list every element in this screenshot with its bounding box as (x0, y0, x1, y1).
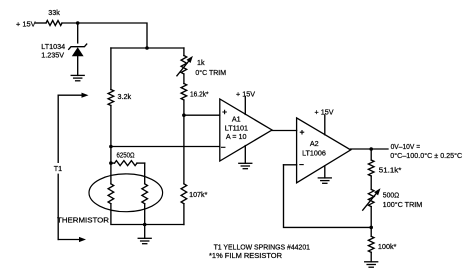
T1 sensor bracket bottom arrow (58, 239, 79, 241)
svg-text:A = 10: A = 10 (226, 132, 247, 141)
wire to ground (144, 225, 146, 239)
trimpot 1k 0C TRIM (181, 56, 187, 75)
A2 supply stem and label (324, 115, 326, 135)
wire A1 out to A2 (272, 130, 297, 132)
svg-text:+ 15V: + 15V (315, 108, 334, 117)
svg-text:0°C–100.0°C ± 0.25°C: 0°C–100.0°C ± 0.25°C (390, 151, 462, 160)
svg-text:100k*: 100k* (378, 242, 397, 251)
wire right thermistor leg (144, 163, 146, 184)
svg-text:16.2k*: 16.2k* (190, 89, 209, 98)
op-amp A1 LT1101 (220, 99, 272, 161)
node bridge top (145, 46, 149, 50)
node A1 plus tap (182, 113, 186, 117)
svg-text:0°C TRIM: 0°C TRIM (195, 68, 226, 77)
wire left arm down (110, 48, 112, 90)
svg-text:3.2k: 3.2k (118, 92, 132, 101)
wire to trim (370, 176, 372, 189)
wires thermistor bottoms (111, 204, 184, 225)
wire +15V feed (36, 22, 47, 24)
svg-text:100°C TRIM: 100°C TRIM (383, 200, 423, 209)
wire bridge top bar (111, 47, 184, 49)
wire 100k to ground (370, 252, 372, 261)
wire to A1 inverting input (111, 146, 220, 148)
thermistor element right (142, 184, 148, 204)
svg-text:33k: 33k (48, 8, 60, 17)
svg-text:A2: A2 (310, 139, 319, 148)
ground below zener (71, 74, 84, 76)
svg-text:0V–10V =: 0V–10V = (391, 142, 421, 151)
wire A2 inverting stub (284, 164, 297, 166)
wire trim to 16.2k (183, 74, 185, 84)
ground output divider (365, 261, 378, 263)
wire down to zener (77, 23, 79, 43)
svg-text:1.235V: 1.235V (41, 50, 64, 59)
wire down through minus wire to 107k (183, 100, 185, 184)
svg-text:6250Ω: 6250Ω (117, 150, 136, 159)
feedback wire (284, 165, 372, 228)
resistor 107k* (181, 184, 187, 204)
node feedback (369, 226, 373, 230)
svg-text:*1% FILM RESISTOR: *1% FILM RESISTOR (209, 251, 282, 260)
node 6250 tap (109, 161, 113, 165)
resistor 51.1k* (368, 160, 374, 176)
svg-text:51.1k*: 51.1k* (379, 165, 402, 174)
svg-text:+ 15V: + 15V (236, 89, 255, 98)
svg-text:500Ω: 500Ω (383, 190, 400, 199)
svg-text:107k*: 107k* (189, 190, 207, 199)
wire to 100k (370, 227, 372, 236)
wire trim to feedback node (370, 207, 372, 228)
A1 ground (244, 146, 246, 164)
resistor R 33k (46, 21, 62, 26)
svg-text:T1: T1 (54, 164, 62, 173)
zener diode LT1034 (69, 44, 87, 49)
svg-text:THERMISTOR: THERMISTOR (57, 216, 109, 225)
node thermistor ground (143, 223, 147, 227)
T1 sensor bracket top arrow (58, 94, 81, 96)
thermistor element left (108, 184, 114, 204)
wire to A1 non-inverting input (184, 114, 220, 116)
A2 ground (324, 166, 326, 178)
wire 33k to corner and down to bridge top (62, 23, 147, 48)
resistor 100k* (368, 236, 374, 252)
node output (369, 147, 373, 151)
svg-text:1k: 1k (197, 58, 205, 67)
node at 33k / zener junction (76, 21, 80, 25)
op-amp A2 LT1006 (297, 118, 351, 183)
resistor 16.2k* (181, 84, 187, 101)
wire output down (370, 149, 372, 160)
wire A2 output (351, 148, 388, 150)
svg-text:+ 15V: + 15V (16, 19, 36, 28)
T1 bracket vertical (57, 95, 59, 239)
svg-text:A1: A1 (232, 115, 241, 124)
svg-text:LT1006: LT1006 (302, 149, 326, 158)
thermistor oval (89, 174, 163, 212)
wire 107k bottom (183, 204, 185, 225)
trimpot 500ohm 100C TRIM (368, 189, 374, 206)
wire right arm down (183, 48, 185, 56)
node A1 minus tap (109, 145, 113, 149)
resistor 6250ohm (111, 162, 115, 164)
ground thermistor bridge (138, 237, 151, 239)
wire 3.2k to thermistor (110, 106, 112, 184)
A1 supply stem and label (244, 97, 246, 115)
resistor 3.2k (108, 90, 114, 106)
